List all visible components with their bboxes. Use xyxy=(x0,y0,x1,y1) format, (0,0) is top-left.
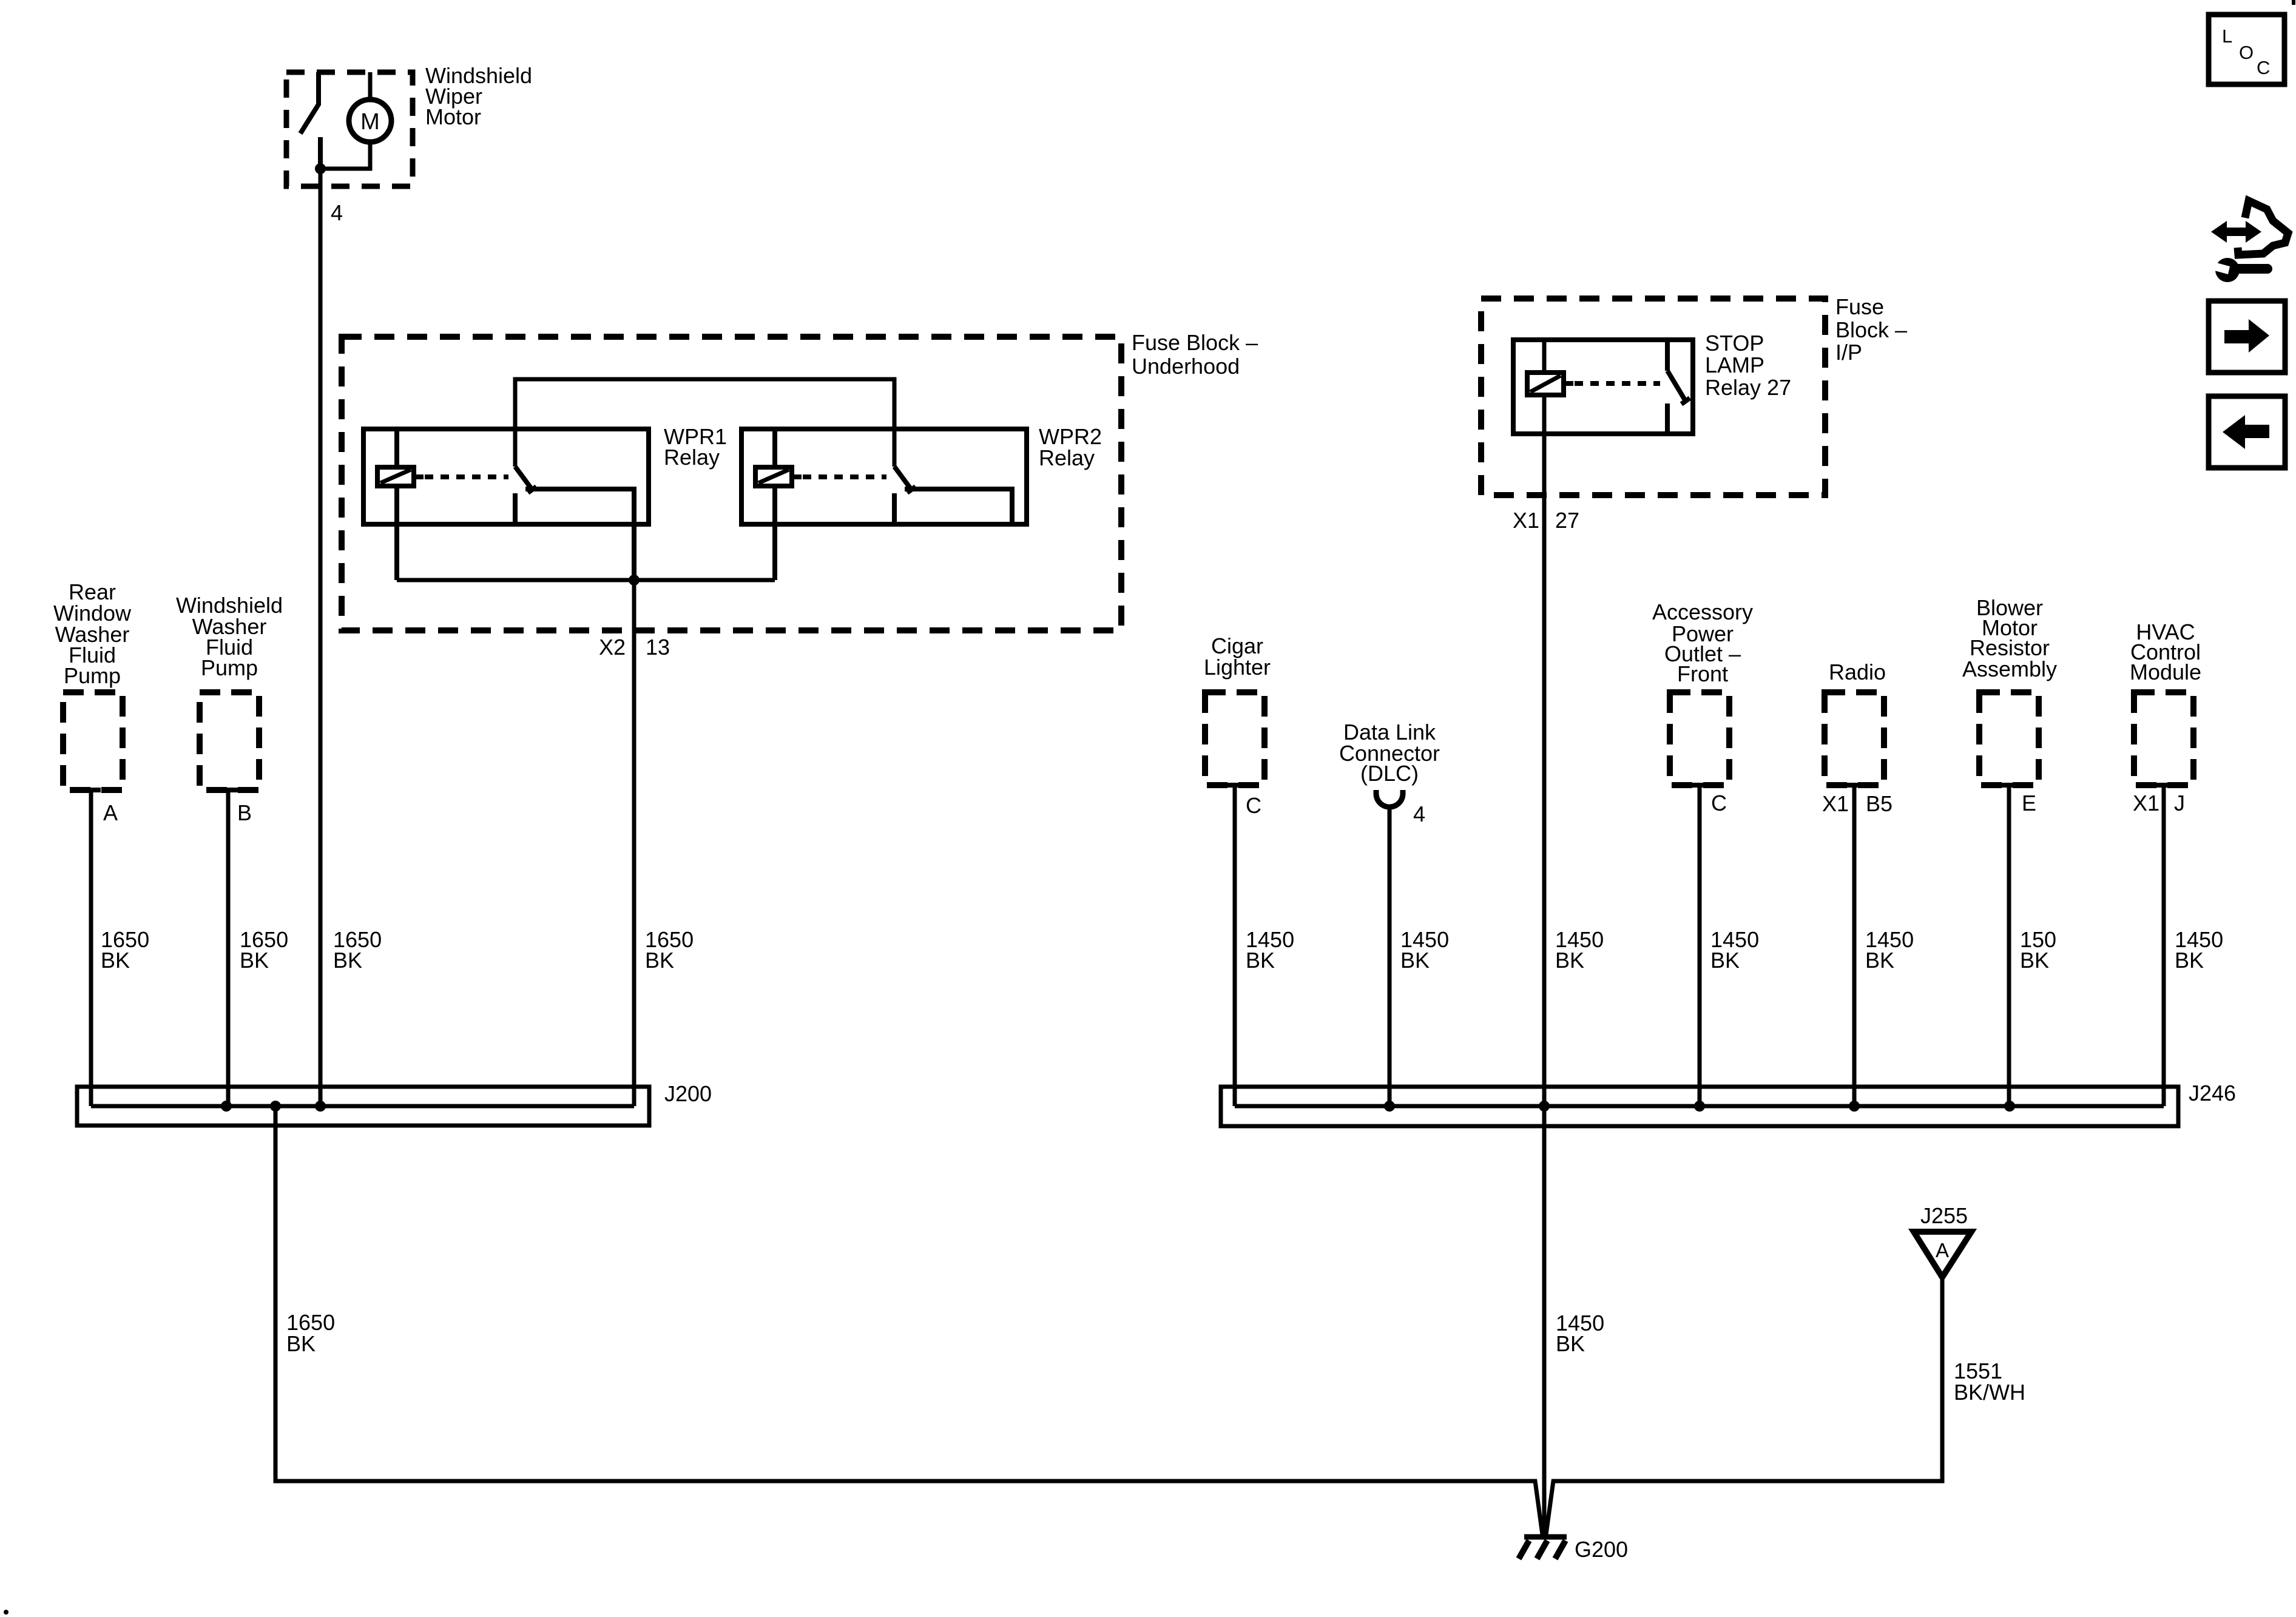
motor M circle xyxy=(349,100,391,142)
wire motor bottom xyxy=(320,142,370,169)
wire label 1450 BK cigar xyxy=(1246,927,1294,973)
svg-text:X1: X1 xyxy=(1822,791,1849,816)
page artifact dots xyxy=(4,1610,8,1615)
svg-text:A: A xyxy=(1936,1239,1949,1261)
left arrow box icon xyxy=(2209,396,2285,468)
relay WPR2 xyxy=(741,429,1027,580)
wire X2 pin13 to J200 xyxy=(632,580,636,1106)
WPR1 switch blade xyxy=(515,467,532,490)
wire WPR1 switch to WPR2 switch xyxy=(515,379,894,467)
svg-text:BK: BK xyxy=(286,1331,316,1356)
svg-text:X1: X1 xyxy=(2133,791,2159,815)
svg-text:BK: BK xyxy=(1400,948,1430,973)
stop lamp coil-switch dashed link xyxy=(1575,381,1660,386)
pin A label xyxy=(103,800,118,825)
WPR1 NO contact line xyxy=(525,489,634,580)
WPR2 coil-switch dashed link xyxy=(803,474,886,479)
wire HVAC to J246 xyxy=(2162,785,2166,1106)
G200 label xyxy=(1575,1537,1628,1562)
splice J246 bus xyxy=(1221,1087,2178,1126)
svg-text:4: 4 xyxy=(331,200,343,225)
svg-text:C: C xyxy=(1711,791,1727,815)
J200 dot motor xyxy=(315,1101,326,1112)
svg-text:BK: BK xyxy=(1710,948,1740,973)
svg-text:13: 13 xyxy=(646,635,670,660)
pin C label acc xyxy=(1711,791,1727,815)
svg-text:BK: BK xyxy=(1865,948,1894,973)
svg-text:Relay: Relay xyxy=(1039,445,1095,470)
wire radio to J246 xyxy=(1852,785,1857,1106)
wire DLC to J246 xyxy=(1388,809,1392,1106)
svg-text:BK: BK xyxy=(1555,948,1584,973)
svg-text:(DLC): (DLC) xyxy=(1360,761,1419,786)
svg-text:B: B xyxy=(237,800,252,825)
svg-text:B5: B5 xyxy=(1866,791,1893,816)
wire label 1650 BK motor xyxy=(333,927,382,973)
svg-text:O: O xyxy=(2239,42,2254,63)
X1 27 labels xyxy=(1513,508,1579,533)
svg-text:J200: J200 xyxy=(664,1081,712,1106)
wiper park switch xyxy=(300,72,320,169)
WPR2 switch blade xyxy=(894,467,911,490)
svg-text:L: L xyxy=(2222,25,2232,47)
svg-text:BK: BK xyxy=(1246,948,1275,973)
svg-text:X1: X1 xyxy=(1513,508,1539,533)
wire label 1650 BK pump A xyxy=(101,927,149,973)
svg-text:Accessory: Accessory xyxy=(1652,599,1753,624)
fuse block underhood label xyxy=(1132,330,1258,379)
relay WPR1 xyxy=(363,429,649,580)
svg-text:J: J xyxy=(2174,791,2185,815)
wire washer pump to J200 xyxy=(226,790,231,1106)
svg-text:Relay 27: Relay 27 xyxy=(1705,375,1791,400)
windshield washer fluid pump xyxy=(176,593,283,680)
svg-text:I/P: I/P xyxy=(1835,340,1862,365)
svg-text:Pump: Pump xyxy=(64,663,121,688)
J200 label xyxy=(664,1081,712,1106)
wire J255 to ground xyxy=(1546,1277,1942,1534)
svg-text:Fuse: Fuse xyxy=(1835,294,1884,319)
svg-text:4: 4 xyxy=(1413,802,1425,826)
svg-text:Fuse Block –: Fuse Block – xyxy=(1132,330,1258,355)
J246 dot acc xyxy=(1694,1101,1705,1112)
windshield wiper motor label xyxy=(425,63,532,129)
ground G200 xyxy=(1519,1537,1567,1559)
WPR1 label xyxy=(664,424,727,470)
WPR2 label xyxy=(1039,424,1102,470)
wire rear pump to J200 xyxy=(89,790,93,1106)
windshield wiper motor dashed box xyxy=(286,72,413,186)
svg-text:J246: J246 xyxy=(2189,1081,2236,1106)
svg-text:BK: BK xyxy=(645,948,674,973)
wire label 1450 BK HVAC xyxy=(2175,927,2223,973)
pins X1 B5 labels xyxy=(1822,791,1893,816)
svg-text:C: C xyxy=(2257,57,2270,78)
WPR1 coil-switch dashed link xyxy=(425,474,508,479)
svg-text:STOP: STOP xyxy=(1705,331,1764,356)
relay coil common connector xyxy=(397,578,775,582)
pins X1 J labels xyxy=(2133,791,2185,815)
pin B label xyxy=(237,800,252,825)
fuse block IP label xyxy=(1835,294,1907,365)
wire label 1650 BK X2 xyxy=(645,927,694,973)
wire cigar lighter to J246 xyxy=(1233,785,1237,1106)
svg-text:A: A xyxy=(103,800,118,825)
connector J255 label xyxy=(1920,1203,1968,1228)
wire label 1450 BK bottom xyxy=(1556,1311,1604,1356)
wire blower resistor to J246 xyxy=(2007,785,2011,1106)
WPR2 coil feed wire xyxy=(772,429,777,580)
WPR2 coil xyxy=(755,467,792,486)
svg-text:27: 27 xyxy=(1555,508,1579,533)
WPR1 NC stub xyxy=(513,493,518,524)
wire motor top xyxy=(368,72,373,101)
svg-text:BK/WH: BK/WH xyxy=(1954,1380,2025,1405)
stop lamp switch feed xyxy=(1665,340,1670,371)
svg-text:BK: BK xyxy=(240,948,269,973)
svg-text:Block –: Block – xyxy=(1835,317,1907,342)
stop lamp NC stub xyxy=(1665,403,1670,434)
fuse block underhood dashed border xyxy=(342,337,1121,630)
svg-text:Motor: Motor xyxy=(425,104,481,129)
J246 label xyxy=(2189,1081,2236,1106)
stop lamp coil xyxy=(1527,373,1564,395)
rear window washer fluid pump xyxy=(53,579,132,688)
LOC box icon xyxy=(2209,15,2284,84)
harness connector icon xyxy=(2206,201,2288,282)
pin 4 label DLC xyxy=(1413,802,1425,826)
WPR1 coil feed wire xyxy=(394,429,399,580)
stop lamp switch blade xyxy=(1667,371,1686,401)
svg-text:Front: Front xyxy=(1677,661,1728,686)
svg-text:LAMP: LAMP xyxy=(1705,353,1764,377)
X2 13 labels xyxy=(599,635,670,660)
svg-text:Radio: Radio xyxy=(1829,660,1886,684)
J246 dot DLC xyxy=(1384,1101,1395,1112)
pin C label xyxy=(1246,793,1261,818)
svg-text:Module: Module xyxy=(2130,660,2201,684)
WPR2 NC stub xyxy=(892,493,897,524)
junction dot motor xyxy=(315,163,326,174)
wire label 1650 BK bottom xyxy=(286,1310,335,1356)
J246 dot blower xyxy=(2004,1101,2015,1112)
svg-text:Assembly: Assembly xyxy=(1962,657,2057,681)
svg-text:E: E xyxy=(2022,791,2036,815)
fuse block IP dashed border xyxy=(1481,299,1825,495)
wire J200 output to ground xyxy=(275,1106,1542,1534)
WPR1 coil xyxy=(377,467,414,486)
svg-text:G200: G200 xyxy=(1575,1537,1628,1562)
svg-text:BK: BK xyxy=(101,948,130,973)
svg-text:BK: BK xyxy=(333,948,362,973)
J200 dot B xyxy=(221,1101,232,1112)
svg-text:BK: BK xyxy=(2020,948,2049,973)
WPR2 NO contact line xyxy=(905,489,1012,524)
stop lamp label xyxy=(1705,331,1791,400)
pin 4 label xyxy=(331,200,343,225)
HVAC control module xyxy=(2130,619,2201,684)
svg-text:BK: BK xyxy=(1556,1331,1585,1356)
right arrow box icon xyxy=(2209,301,2285,373)
wire acc outlet to J246 xyxy=(1698,785,1702,1106)
relay STOP LAMP 27 xyxy=(1513,340,1693,434)
svg-text:Relay: Relay xyxy=(664,445,720,470)
J246 dot radio xyxy=(1849,1101,1860,1112)
accessory power outlet front xyxy=(1652,599,1753,686)
wire label 1450 BK radio xyxy=(1865,927,1914,973)
svg-text:J255: J255 xyxy=(1920,1203,1968,1228)
svg-text:X2: X2 xyxy=(599,635,626,660)
radio xyxy=(1829,660,1886,684)
wire label 1551 BK/WH xyxy=(1954,1359,2025,1405)
svg-text:Pump: Pump xyxy=(201,655,258,680)
svg-text:C: C xyxy=(1246,793,1261,818)
blower motor resistor assembly xyxy=(1962,595,2057,681)
svg-text:M: M xyxy=(360,109,380,135)
wire label 1450 BK acc xyxy=(1710,927,1759,973)
wire stop lamp relay coil to ground G200 xyxy=(1542,340,1547,1537)
wire label 150 BK blower xyxy=(2020,927,2056,973)
junction dot X2 xyxy=(629,575,640,586)
svg-text:BK: BK xyxy=(2175,948,2204,973)
svg-text:Lighter: Lighter xyxy=(1204,655,1271,680)
J200 dot out xyxy=(270,1101,281,1112)
svg-text:Underhood: Underhood xyxy=(1132,354,1240,379)
connector J255 triangle xyxy=(1914,1232,1971,1277)
cigar lighter xyxy=(1204,633,1271,680)
pin E label xyxy=(2022,791,2036,815)
wire label 1450 BK stop lamp xyxy=(1555,927,1604,973)
J246 dot stop lamp xyxy=(1539,1101,1550,1112)
splice J200 bus xyxy=(77,1087,649,1126)
wire motor pin4 to J200 xyxy=(319,169,323,1106)
wire label 1650 BK pump B xyxy=(240,927,288,973)
data link connector DLC xyxy=(1339,720,1440,786)
wire label 1450 BK DLC xyxy=(1400,927,1449,973)
